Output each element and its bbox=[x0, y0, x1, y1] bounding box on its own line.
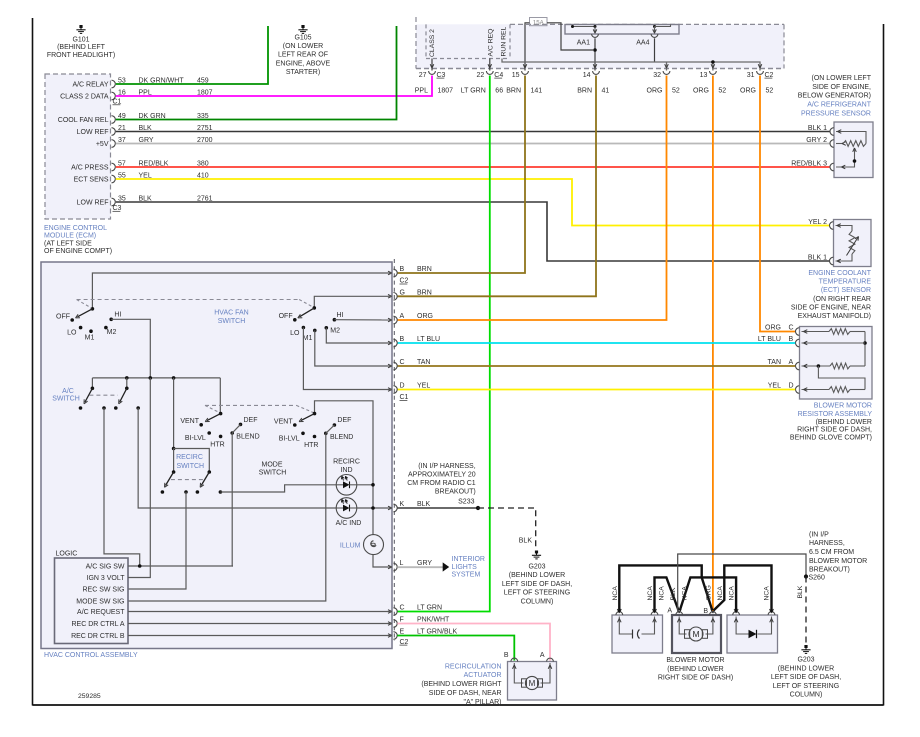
svg-text:OFF: OFF bbox=[56, 313, 70, 320]
resistor assembly pin B LT BLU bbox=[796, 339, 800, 347]
wire TAN bbox=[397, 365, 795, 367]
actuator pin A bbox=[547, 658, 554, 661]
rail junction recirc LED bbox=[371, 483, 375, 487]
svg-text:G203: G203 bbox=[797, 657, 814, 664]
svg-text:ORG: ORG bbox=[740, 87, 756, 94]
wire PNK/WHT bbox=[397, 624, 550, 661]
fan switch right LO contact bbox=[302, 326, 306, 330]
A/C switch contact 2a bbox=[114, 406, 118, 410]
svg-text:ORG: ORG bbox=[693, 87, 709, 94]
resistor assembly pin D YEL bbox=[796, 386, 800, 394]
wire A/C switch to A/C indicator bbox=[138, 408, 336, 508]
svg-text:(IN I/P HARNESS,: (IN I/P HARNESS, bbox=[418, 463, 475, 470]
svg-text:ILLUM: ILLUM bbox=[340, 542, 361, 549]
mode switch right BI-LVL contact bbox=[301, 432, 305, 436]
fuse block internal bus bbox=[573, 26, 596, 28]
wire ORG 52 pin 31 bbox=[760, 76, 795, 332]
svg-text:BI-LVL: BI-LVL bbox=[185, 435, 206, 442]
diode box pin left bbox=[733, 612, 740, 615]
recirculation actuator box bbox=[508, 662, 557, 701]
svg-text:PRESSURE SENSOR: PRESSURE SENSOR bbox=[801, 110, 871, 117]
pressure sensor pin 1 BLK bbox=[830, 128, 834, 136]
fuse AA4 connector bbox=[651, 34, 658, 37]
svg-text:FRONT HEADLIGHT): FRONT HEADLIGHT) bbox=[47, 52, 115, 59]
wire PPL 1807 bbox=[116, 76, 432, 97]
A/C switch contact 1b bbox=[102, 406, 106, 410]
connector pin 27 PPL 1807 bbox=[429, 71, 436, 74]
svg-text:BRN: BRN bbox=[506, 87, 521, 94]
svg-text:BLK: BLK bbox=[797, 585, 804, 598]
HVAC control assembly box bbox=[41, 262, 392, 649]
A/C switch contact 1a bbox=[79, 406, 83, 410]
mode switch left VENT contact bbox=[199, 423, 203, 427]
wire pin B to fan switch pivot bbox=[92, 273, 392, 309]
svg-text:COLUMN): COLUMN) bbox=[521, 598, 554, 605]
svg-text:ENGINE COOLANT: ENGINE COOLANT bbox=[808, 270, 871, 277]
svg-text:BLK: BLK bbox=[519, 538, 533, 545]
diode box pin right bbox=[768, 612, 775, 615]
HVAC pin L GRY bbox=[393, 563, 397, 571]
svg-text:M2: M2 bbox=[330, 327, 340, 334]
svg-text:52: 52 bbox=[672, 87, 680, 94]
svg-text:A/C RELAY: A/C RELAY bbox=[72, 82, 108, 89]
wire fan HI to rail bbox=[111, 319, 150, 378]
wire IGN 3 VOLT bbox=[128, 378, 150, 578]
svg-text:B: B bbox=[400, 336, 405, 343]
ECT sensor pin 1 BLK bbox=[830, 257, 834, 265]
svg-text:A/C: A/C bbox=[62, 388, 74, 395]
fan switch right HI contact bbox=[333, 318, 337, 322]
svg-text:RECIRC: RECIRC bbox=[176, 454, 203, 461]
svg-text:(BEHIND LOWER: (BEHIND LOWER bbox=[778, 665, 834, 672]
svg-text:(BEHIND LOWER: (BEHIND LOWER bbox=[667, 666, 723, 673]
mode switch right DEF contact bbox=[333, 423, 337, 427]
svg-text:ECT SENS: ECT SENS bbox=[74, 177, 109, 184]
fan switch left HI contact bbox=[109, 318, 113, 322]
svg-text:K: K bbox=[400, 501, 405, 508]
rail junction recirc bbox=[172, 376, 176, 380]
fan switch left LO contact bbox=[79, 326, 83, 330]
recirc switch contact 2b bbox=[219, 490, 223, 494]
wire S260 to G203 dashed bbox=[805, 577, 807, 645]
svg-text:REC DR CTRL B: REC DR CTRL B bbox=[71, 633, 125, 640]
svg-text:BLK: BLK bbox=[417, 501, 431, 508]
svg-text:41: 41 bbox=[602, 87, 610, 94]
svg-text:A/C IND: A/C IND bbox=[336, 520, 362, 527]
svg-text:B: B bbox=[504, 652, 509, 659]
junction bus pin 13 bbox=[711, 60, 715, 64]
svg-text:MODE: MODE bbox=[262, 461, 283, 468]
engine control module ECM box bbox=[45, 74, 111, 219]
A/C switch pivot 2 bbox=[125, 387, 129, 391]
svg-text:HVAC CONTROL ASSEMBLY: HVAC CONTROL ASSEMBLY bbox=[44, 652, 138, 659]
svg-text:SWITCH: SWITCH bbox=[218, 318, 246, 325]
wire LT BLU bbox=[397, 342, 795, 344]
svg-text:YEL 2: YEL 2 bbox=[808, 219, 827, 226]
ground G105 bbox=[301, 25, 304, 28]
svg-text:HARNESS,: HARNESS, bbox=[809, 540, 845, 547]
wire lamp to pin L bbox=[373, 555, 392, 567]
svg-text:OFF: OFF bbox=[279, 313, 293, 320]
svg-text:RECIRC: RECIRC bbox=[333, 458, 360, 465]
svg-text:66: 66 bbox=[495, 87, 503, 94]
mode switch left pivot bbox=[219, 412, 223, 416]
capacitor box pin left bbox=[616, 612, 623, 615]
svg-text:15A: 15A bbox=[533, 20, 545, 27]
svg-text:S233: S233 bbox=[458, 499, 474, 506]
svg-text:RED/BLK 3: RED/BLK 3 bbox=[791, 160, 827, 167]
svg-text:SWITCH: SWITCH bbox=[52, 396, 80, 403]
connector pin 13 ORG 52 bbox=[710, 71, 717, 74]
ground G203 left bbox=[535, 551, 538, 554]
svg-text:ORG: ORG bbox=[706, 585, 713, 600]
wire recirc LED to rail bbox=[357, 484, 373, 486]
wire A/C SIG SW bbox=[128, 565, 233, 567]
svg-text:BLOWER MOTOR: BLOWER MOTOR bbox=[809, 558, 867, 565]
capacitor box pin right bbox=[651, 612, 658, 615]
blower capacitor box bbox=[612, 615, 663, 653]
svg-text:15: 15 bbox=[512, 72, 520, 79]
ground G101 bbox=[79, 25, 82, 28]
svg-text:A: A bbox=[667, 608, 672, 615]
engine coolant temperature sensor box bbox=[834, 220, 872, 267]
svg-text:1807: 1807 bbox=[438, 87, 454, 94]
svg-text:M1: M1 bbox=[85, 335, 95, 342]
svg-text:(BEHIND LOWER: (BEHIND LOWER bbox=[816, 419, 872, 426]
wire GRY 2700 bbox=[116, 143, 830, 145]
blower diode box bbox=[727, 615, 778, 653]
interior lights arrow bbox=[443, 562, 450, 571]
wire BLK 2761 bbox=[116, 202, 830, 261]
HVAC pin G BRN bbox=[393, 293, 397, 301]
blower pin B bbox=[710, 612, 717, 615]
recirc switch pivot 1 bbox=[172, 470, 176, 474]
A/C refrigerant pressure sensor box bbox=[834, 122, 873, 178]
capacitor symbol bbox=[619, 617, 632, 635]
svg-text:RUN REL: RUN REL bbox=[501, 26, 508, 56]
wire BLK blower to S260 bbox=[678, 554, 806, 612]
HVAC pin A ORG bbox=[393, 316, 397, 324]
svg-text:52: 52 bbox=[766, 87, 774, 94]
svg-text:G203: G203 bbox=[528, 564, 545, 571]
wire CLASS 2 to pin 27 bbox=[431, 59, 433, 71]
wire rail to A/C switch pivot 2 bbox=[126, 378, 128, 388]
svg-text:M: M bbox=[692, 629, 699, 639]
svg-text:GRY 2: GRY 2 bbox=[806, 137, 827, 144]
svg-text:BLEND: BLEND bbox=[330, 434, 353, 441]
wire A/C switch to A/C SIG SW bbox=[104, 408, 140, 566]
svg-text:M1: M1 bbox=[303, 335, 313, 342]
resistor R1 row C bbox=[802, 331, 830, 333]
svg-text:(BEHIND LOWER RIGHT: (BEHIND LOWER RIGHT bbox=[421, 681, 502, 688]
svg-text:RESISTOR ASSEMBLY: RESISTOR ASSEMBLY bbox=[798, 411, 873, 418]
pressure sensor pin 2 GRY bbox=[830, 140, 834, 148]
svg-text:G: G bbox=[400, 290, 405, 297]
svg-text:32: 32 bbox=[653, 72, 661, 79]
svg-text:259285: 259285 bbox=[78, 693, 101, 700]
svg-text:D: D bbox=[400, 383, 405, 390]
svg-text:BREAKOUT): BREAKOUT) bbox=[435, 489, 476, 496]
svg-text:S260: S260 bbox=[809, 575, 825, 582]
svg-text:PPL: PPL bbox=[415, 87, 428, 94]
svg-text:LIGHTS: LIGHTS bbox=[452, 564, 478, 571]
svg-text:L: L bbox=[400, 560, 404, 567]
wire DK GRN 335 bbox=[116, 26, 397, 120]
svg-text:(IN I/P: (IN I/P bbox=[809, 531, 829, 538]
fan switch linkage dashed bbox=[77, 299, 300, 301]
svg-text:BI-LVL: BI-LVL bbox=[279, 436, 300, 443]
wire LT GRN/BLK bbox=[397, 636, 514, 661]
svg-text:(AT LEFT SIDE: (AT LEFT SIDE bbox=[44, 240, 92, 247]
svg-text:LT GRN: LT GRN bbox=[461, 87, 486, 94]
wire fuse to AA1 node bbox=[547, 23, 593, 50]
svg-text:RECIRCULATION: RECIRCULATION bbox=[445, 663, 502, 670]
svg-text:CLASS 2: CLASS 2 bbox=[429, 29, 436, 57]
resistor R3 row D bbox=[802, 389, 830, 391]
wire M1 to pin C bbox=[315, 330, 392, 366]
svg-text:LEFT SIDE OF DASH,: LEFT SIDE OF DASH, bbox=[771, 674, 841, 681]
mode switch left arm bbox=[207, 414, 221, 421]
svg-text:6.5 CM FROM: 6.5 CM FROM bbox=[809, 549, 854, 556]
wire LT GRN 66 bbox=[397, 76, 490, 612]
wire BRN 141 bbox=[397, 76, 525, 274]
fan switch left arm bbox=[78, 309, 93, 317]
svg-text:DEF: DEF bbox=[244, 417, 258, 424]
svg-text:27: 27 bbox=[419, 72, 427, 79]
svg-text:C: C bbox=[400, 359, 405, 366]
recirc switch contact 1a bbox=[161, 490, 165, 494]
svg-text:"A" PILLAR): "A" PILLAR) bbox=[463, 699, 501, 706]
svg-text:A/C SIG SW: A/C SIG SW bbox=[86, 564, 125, 571]
fan switch right arm bbox=[300, 308, 315, 317]
wire BRN 41 bbox=[397, 76, 596, 297]
wire LO to pin D bbox=[303, 328, 392, 390]
HVAC pin B BRN bbox=[393, 269, 397, 277]
connector pin 15 BRN 141 bbox=[522, 71, 529, 74]
svg-text:ORG: ORG bbox=[417, 313, 433, 320]
mode switch right HTR contact bbox=[313, 435, 317, 439]
fan switch left OFF contact bbox=[70, 318, 74, 322]
mode switch left BI-LVL contact bbox=[207, 431, 211, 435]
svg-text:LEFT SIDE OF DASH,: LEFT SIDE OF DASH, bbox=[502, 581, 572, 588]
svg-text:LEFT OF STEERING: LEFT OF STEERING bbox=[504, 590, 570, 597]
splice S260 bbox=[804, 574, 808, 578]
A/C indicator LED bbox=[336, 498, 357, 519]
recirc feed node bbox=[172, 447, 176, 451]
resistor assembly pin C ORG bbox=[796, 328, 800, 336]
svg-text:LT BLU: LT BLU bbox=[417, 336, 440, 343]
svg-text:HVAC FAN: HVAC FAN bbox=[214, 309, 249, 316]
recirc switch arm 1 bbox=[166, 472, 174, 486]
svg-text:CLASS 2 DATA: CLASS 2 DATA bbox=[60, 94, 109, 101]
svg-text:C: C bbox=[789, 325, 794, 332]
svg-text:G101: G101 bbox=[72, 37, 89, 44]
svg-text:SYSTEM: SYSTEM bbox=[452, 572, 481, 579]
connector pin 31 ORG 52 bbox=[757, 71, 764, 74]
recirc switch contact 1b bbox=[184, 490, 188, 494]
HVAC pin C LT GRN bbox=[393, 608, 397, 616]
wire M2 to pin B bbox=[326, 328, 392, 343]
fan switch left M2 contact bbox=[104, 326, 108, 330]
svg-text:BLK: BLK bbox=[670, 587, 677, 600]
svg-text:HTR: HTR bbox=[304, 442, 318, 449]
HVAC pin C TAN bbox=[393, 362, 397, 370]
HVAC fan switch left pivot bbox=[91, 307, 95, 311]
HVAC pin F PNK/WHT bbox=[393, 620, 397, 628]
wire AA1 to pin 14 bbox=[594, 38, 596, 70]
resistor row B wire bbox=[802, 342, 866, 344]
svg-text:HI: HI bbox=[114, 312, 121, 319]
recirc switch arm 2 bbox=[201, 472, 209, 486]
wire left BLEND riser bbox=[231, 433, 233, 566]
svg-text:A/C REFRIGERANT: A/C REFRIGERANT bbox=[807, 102, 872, 109]
logic box bbox=[55, 558, 129, 644]
svg-text:IND: IND bbox=[340, 467, 352, 474]
pressure sensor pin 3 RED/BLK bbox=[830, 163, 834, 171]
svg-text:13: 13 bbox=[700, 72, 708, 79]
wire ORG 52 pin 13 bbox=[712, 76, 714, 612]
svg-text:(ECT) SENSOR: (ECT) SENSOR bbox=[821, 287, 871, 294]
svg-text:COLUMN): COLUMN) bbox=[790, 692, 823, 699]
svg-text:VENT: VENT bbox=[180, 418, 199, 425]
mode switch left DEF contact bbox=[239, 423, 243, 427]
svg-text:(ON RIGHT REAR: (ON RIGHT REAR bbox=[813, 296, 871, 303]
svg-text:MODULE (ECM): MODULE (ECM) bbox=[44, 233, 96, 240]
wire BLEND riser joins A/C SIG SW bbox=[231, 565, 234, 567]
underhood fuse block box bbox=[416, 24, 784, 68]
svg-text:A/C REQUEST: A/C REQUEST bbox=[77, 609, 125, 616]
recirc feed branch bbox=[174, 449, 210, 473]
pressure sensor internal wiring bbox=[836, 132, 866, 144]
wire recirc to REC SW SIG bbox=[128, 492, 186, 589]
wire mode feed right bbox=[315, 401, 374, 535]
svg-text:M: M bbox=[529, 679, 536, 688]
wire recirc to recirc indicator bbox=[220, 485, 336, 492]
resistor R2 row A bbox=[802, 365, 831, 367]
resistor jog wire bbox=[818, 366, 865, 390]
svg-text:(BEHIND LEFT: (BEHIND LEFT bbox=[57, 44, 106, 51]
wire BLK pin K bbox=[397, 507, 478, 509]
diode symbol bbox=[736, 617, 748, 635]
svg-text:SIDE OF ENGINE,: SIDE OF ENGINE, bbox=[812, 84, 871, 91]
blower pin A bbox=[676, 612, 683, 615]
svg-text:SWITCH: SWITCH bbox=[176, 463, 204, 470]
wire YEL 410 bbox=[116, 179, 830, 226]
svg-text:ORG: ORG bbox=[765, 325, 781, 332]
svg-text:REC DR CTRL A: REC DR CTRL A bbox=[71, 621, 124, 628]
A/C switch arm 1 bbox=[85, 388, 92, 402]
junction A/C SIG SW bbox=[138, 564, 142, 568]
svg-text:NCA: NCA bbox=[763, 586, 770, 601]
fuse AA1 connector bbox=[592, 34, 599, 37]
svg-text:BLEND: BLEND bbox=[236, 434, 259, 441]
rail junction M2 bbox=[125, 376, 129, 380]
actuator pin B bbox=[511, 658, 518, 661]
svg-text:NCA: NCA bbox=[647, 586, 654, 601]
svg-text:OF ENGINE COMPT): OF ENGINE COMPT) bbox=[44, 248, 112, 255]
svg-text:141: 141 bbox=[531, 87, 543, 94]
wire ORG 52 pin 32 bbox=[397, 76, 666, 321]
svg-text:LEFT REAR OF: LEFT REAR OF bbox=[278, 52, 328, 59]
svg-text:RIGHT SIDE OF DASH): RIGHT SIDE OF DASH) bbox=[658, 675, 733, 682]
fan switch right OFF contact bbox=[293, 318, 297, 322]
svg-text:AA4: AA4 bbox=[636, 40, 649, 47]
HVAC pin K BLK bbox=[393, 504, 397, 512]
svg-text:(ON LOWER LEFT: (ON LOWER LEFT bbox=[811, 75, 871, 82]
svg-text:C1: C1 bbox=[113, 99, 122, 106]
wire REC DR CTRL B to pin E bbox=[128, 635, 392, 637]
wire right BLEND riser to MODE SW SIG bbox=[128, 433, 326, 601]
recirc switch pivot 2 bbox=[208, 470, 212, 474]
svg-text:A/C REQ: A/C REQ bbox=[488, 29, 495, 57]
illumination lamp bbox=[364, 535, 384, 555]
NCA bus blower A to diode-left bbox=[680, 577, 736, 612]
connector pin 22 LT GRN 66 bbox=[486, 71, 493, 74]
wire rail to A/C switch pivot 1 bbox=[91, 378, 93, 388]
mode switch right arm bbox=[301, 414, 315, 421]
svg-text:B: B bbox=[703, 608, 708, 615]
svg-text:NCA: NCA bbox=[682, 586, 689, 601]
rail junction A/C LED bbox=[371, 506, 375, 510]
recirc switch contact 2a bbox=[196, 490, 200, 494]
svg-text:LEFT OF STEERING: LEFT OF STEERING bbox=[773, 683, 839, 690]
A/C switch linkage dashed bbox=[89, 394, 117, 396]
svg-text:RIGHT SIDE OF DASH,: RIGHT SIDE OF DASH, bbox=[797, 427, 872, 434]
svg-text:REC SW SIG: REC SW SIG bbox=[82, 587, 124, 594]
wire pin G to fan switch pivot bbox=[314, 296, 392, 308]
svg-text:+5V: +5V bbox=[96, 141, 109, 148]
resistor assembly pin A TAN bbox=[796, 362, 800, 370]
resistor right rail bbox=[864, 332, 866, 367]
svg-text:LO: LO bbox=[67, 330, 77, 337]
svg-text:NCA: NCA bbox=[659, 586, 666, 601]
recirc switch linkage dashed bbox=[171, 479, 203, 481]
blower motor resistor assembly box bbox=[800, 327, 873, 400]
wire HI to pin A bbox=[334, 319, 392, 321]
wire A/C REQ to pin 22 bbox=[489, 59, 491, 71]
HVAC pin B LT BLU bbox=[393, 339, 397, 347]
svg-text:BEHIND GLOVE COMPT): BEHIND GLOVE COMPT) bbox=[790, 435, 872, 442]
svg-text:NCA: NCA bbox=[717, 586, 724, 601]
fan switch left M1 contact bbox=[89, 329, 93, 333]
NCA bus capacitor-left to blower B bbox=[619, 565, 712, 612]
svg-text:ACTUATOR: ACTUATOR bbox=[464, 672, 502, 679]
svg-text:VENT: VENT bbox=[274, 418, 293, 425]
svg-text:BLOWER MOTOR: BLOWER MOTOR bbox=[814, 403, 872, 410]
svg-text:TEMPERATURE: TEMPERATURE bbox=[819, 279, 872, 286]
fuse block inner relay box bbox=[426, 24, 510, 58]
mode switch right VENT contact bbox=[293, 423, 297, 427]
wire DK GRN/WHT 459 bbox=[116, 26, 268, 84]
wire RUN REL bus bbox=[502, 59, 760, 71]
svg-text:A: A bbox=[400, 313, 405, 320]
rail junction HI/IGN bbox=[149, 376, 153, 380]
A/C switch contact 2b bbox=[136, 406, 140, 410]
NCA bus capacitor-right to blower A bbox=[655, 577, 679, 612]
blower motor symbol bbox=[679, 617, 686, 635]
switch feed rail bbox=[92, 377, 220, 379]
svg-text:BRN: BRN bbox=[417, 266, 432, 273]
A/C switch arm 2 bbox=[120, 388, 127, 402]
svg-text:AA1: AA1 bbox=[577, 40, 590, 47]
svg-text:BLOWER MOTOR: BLOWER MOTOR bbox=[666, 657, 724, 664]
connector pin 32 ORG 52 bbox=[663, 71, 670, 74]
mode switch left HTR contact bbox=[219, 435, 223, 439]
svg-text:CM FROM RADIO C1: CM FROM RADIO C1 bbox=[407, 480, 476, 487]
svg-text:14: 14 bbox=[583, 72, 591, 79]
svg-text:LT GRN: LT GRN bbox=[417, 605, 442, 612]
mode switch left BLEND contact bbox=[230, 431, 234, 435]
